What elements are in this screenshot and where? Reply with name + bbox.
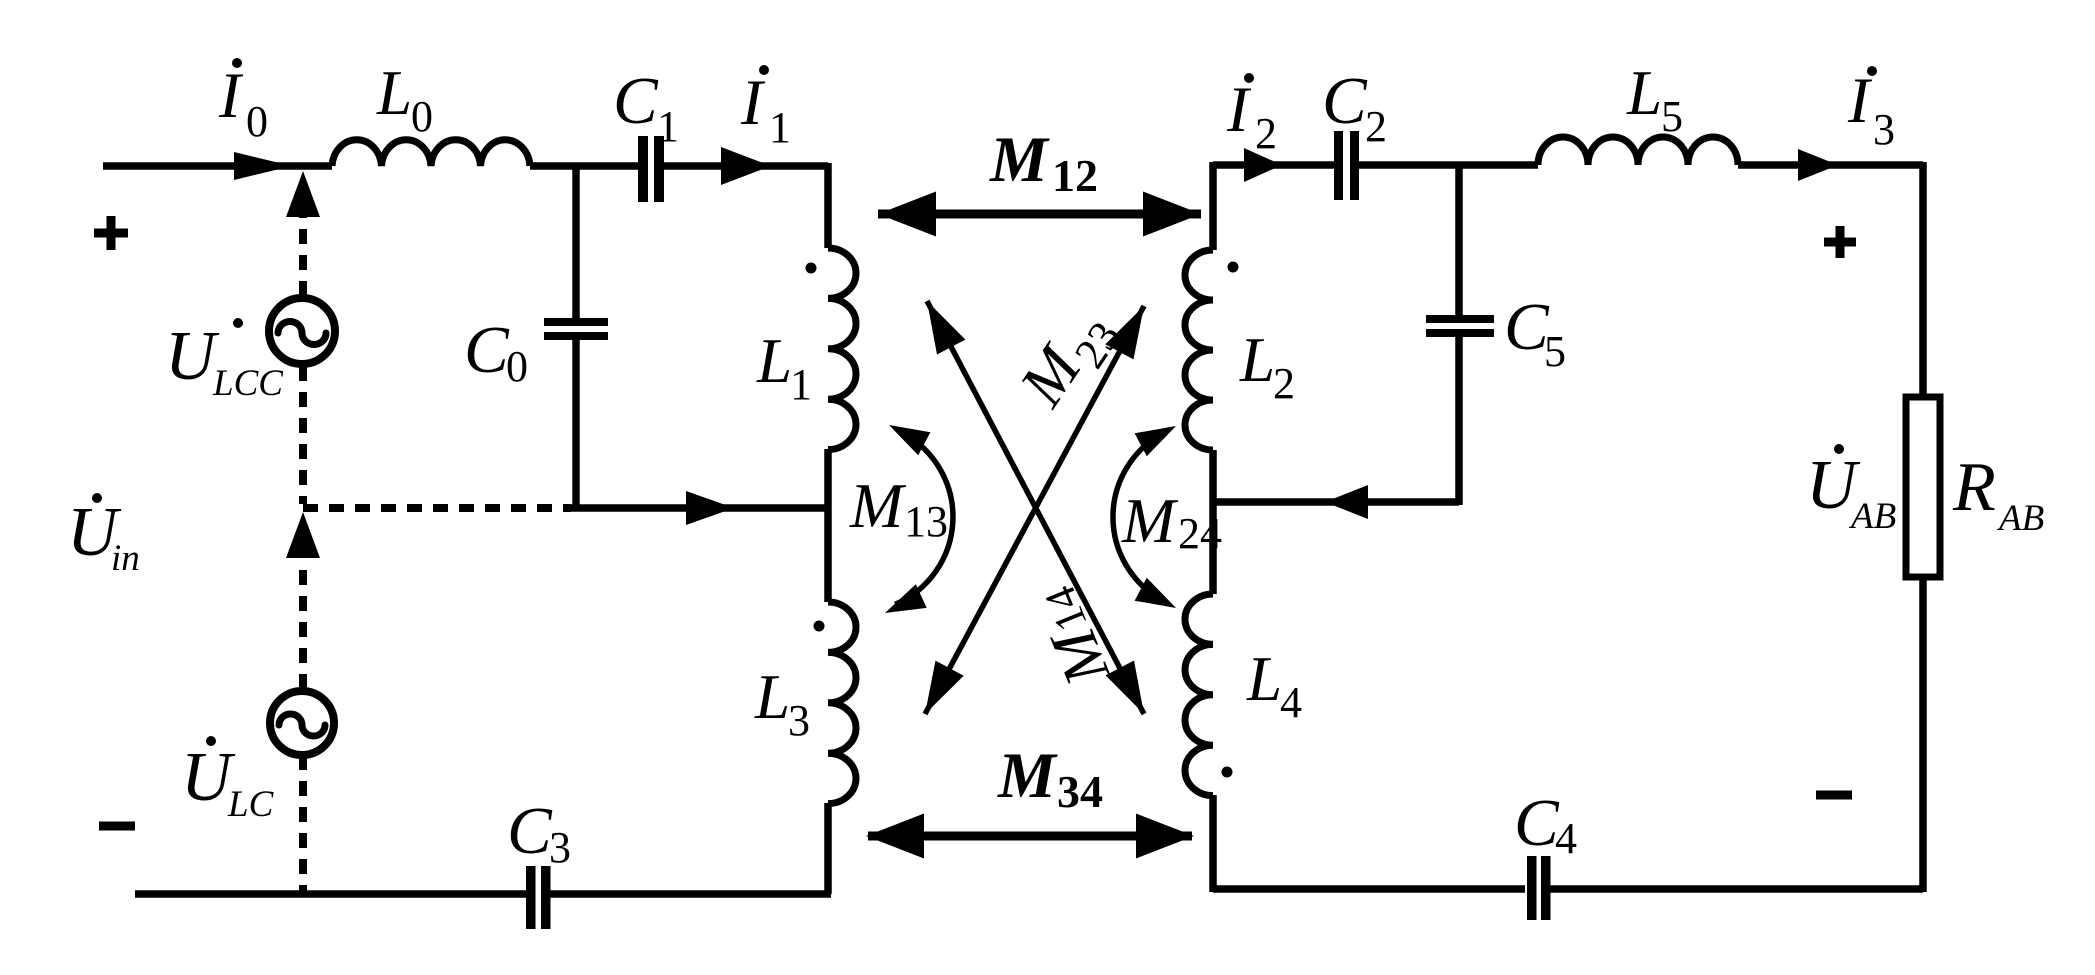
wire L2 to L4 spine xyxy=(1209,450,1217,594)
label I3 xyxy=(1847,65,1895,154)
label ULCC xyxy=(165,318,284,404)
wire L3 to bottom xyxy=(824,803,832,894)
svg-text:M: M xyxy=(1121,485,1179,556)
label I0 xyxy=(218,58,268,146)
svg-text:L: L xyxy=(756,326,792,396)
wire link to L1 L3 junction xyxy=(571,504,828,512)
label C1 xyxy=(613,64,679,151)
label C0 xyxy=(464,313,528,391)
svg-text:AB: AB xyxy=(1848,496,1896,537)
dashed horizontal link xyxy=(303,504,571,512)
svg-text:34: 34 xyxy=(1057,766,1103,817)
capacitor C5 xyxy=(1426,315,1494,337)
wire L4 to bottom xyxy=(1209,795,1217,892)
inductor L1 xyxy=(828,248,856,450)
label M34 xyxy=(997,740,1103,817)
wire C5 top branch xyxy=(1455,165,1463,317)
source ULCC xyxy=(269,298,335,364)
svg-text:L: L xyxy=(754,662,790,732)
inductor L5 xyxy=(1538,137,1738,165)
label L2 xyxy=(1239,325,1295,408)
wire C5 bottom branch xyxy=(1455,337,1463,505)
svg-text:M: M xyxy=(849,470,907,541)
wire top right C2 section xyxy=(1213,161,1336,169)
capacitor C3 xyxy=(526,866,551,929)
label M24 xyxy=(1121,485,1222,558)
svg-text:4: 4 xyxy=(1280,678,1302,727)
coupling arrow M34 xyxy=(866,814,1194,859)
dashed voltage line lower segment xyxy=(299,559,307,689)
dashed voltage line ULCC arrowhead xyxy=(286,171,320,217)
capacitor C0 xyxy=(544,318,608,340)
label L3 xyxy=(754,662,810,745)
capacitor C4 xyxy=(1527,856,1551,920)
svg-text:L: L xyxy=(376,58,412,128)
label L5 xyxy=(1626,58,1683,141)
wire C1 to corner xyxy=(664,162,828,170)
wire input feed xyxy=(103,162,332,170)
svg-text:4: 4 xyxy=(1555,814,1577,863)
svg-text:C: C xyxy=(1514,786,1560,860)
label L0 xyxy=(376,58,433,141)
coupling arrow M23 xyxy=(925,306,1144,714)
svg-text:M: M xyxy=(997,740,1058,812)
minus sign left xyxy=(99,822,135,831)
inductor L3 xyxy=(828,602,856,804)
coupling arrow M14 xyxy=(927,301,1144,714)
label I2 xyxy=(1226,73,1277,158)
svg-text:L: L xyxy=(1246,644,1282,714)
plus sign left xyxy=(94,216,128,250)
label M13 xyxy=(849,470,948,546)
svg-text:I: I xyxy=(740,67,766,139)
resistor RAB xyxy=(1906,397,1940,577)
label L4 xyxy=(1246,644,1302,727)
svg-text:L: L xyxy=(1626,58,1662,128)
wire C4 to RAB corner xyxy=(1547,885,1923,893)
svg-text:2: 2 xyxy=(1365,102,1387,151)
svg-text:3: 3 xyxy=(549,823,571,872)
dashed voltage line bottom segment xyxy=(299,755,307,892)
svg-text:0: 0 xyxy=(246,97,268,146)
current arrow I3 xyxy=(1798,149,1838,181)
label UAB xyxy=(1806,444,1896,537)
svg-text:in: in xyxy=(111,538,140,579)
label ULC xyxy=(181,736,275,825)
polarity dot L2 xyxy=(1228,262,1239,273)
label C2 xyxy=(1322,64,1387,151)
svg-text:C: C xyxy=(507,794,553,868)
svg-text:0: 0 xyxy=(506,342,528,391)
inductor L0 xyxy=(332,140,530,166)
svg-text:1: 1 xyxy=(790,360,812,409)
current arrow on link xyxy=(686,491,734,525)
capacitor C2 xyxy=(1334,131,1359,200)
coupling arc M13 xyxy=(885,425,953,613)
svg-text:C: C xyxy=(464,313,510,387)
svg-text:LCC: LCC xyxy=(212,363,284,404)
svg-text:1: 1 xyxy=(769,103,791,152)
wire C3 to L3 corner xyxy=(549,890,831,898)
svg-text:U: U xyxy=(165,318,220,395)
label M14 xyxy=(1020,577,1123,696)
coupling arc M24 xyxy=(1113,426,1176,608)
current arrow I0 xyxy=(234,152,292,180)
svg-text:LC: LC xyxy=(227,784,275,825)
dashed voltage line mid segment xyxy=(299,366,307,504)
source ULC xyxy=(270,691,334,755)
svg-text:5: 5 xyxy=(1544,327,1566,376)
svg-text:0: 0 xyxy=(411,92,433,141)
svg-text:1: 1 xyxy=(657,102,679,151)
dashed voltage line upper segment xyxy=(299,217,307,296)
polarity dot L3 xyxy=(814,621,825,632)
polarity dot L4 xyxy=(1222,767,1233,778)
inductor L4 xyxy=(1185,594,1213,796)
svg-text:I: I xyxy=(1226,74,1252,146)
wire corner to L2 xyxy=(1209,162,1217,250)
wire C5 link to L2 L4 junction xyxy=(1213,498,1459,506)
svg-text:12: 12 xyxy=(1052,150,1098,201)
svg-text:3: 3 xyxy=(1873,105,1895,154)
wire C0 bottom branch xyxy=(572,340,580,511)
wire RAB to bottom xyxy=(1919,577,1927,892)
wire C0 top branch xyxy=(572,166,580,320)
wire C2 to junction xyxy=(1359,161,1538,169)
plus sign right xyxy=(1824,226,1856,258)
svg-text:I: I xyxy=(218,60,244,132)
wire bottom left to C3 xyxy=(135,890,527,898)
inductor L2 xyxy=(1185,250,1213,450)
label I1 xyxy=(740,65,791,152)
wire corner down to RAB xyxy=(1919,162,1927,399)
svg-text:AB: AB xyxy=(1996,498,2044,539)
label L1 xyxy=(756,326,812,409)
svg-text:3: 3 xyxy=(788,696,810,745)
current arrow on C5 link xyxy=(1325,485,1368,519)
label C4 xyxy=(1514,786,1577,863)
dashed voltage line ULC arrowhead xyxy=(286,512,320,558)
wire corner down to L1 xyxy=(824,163,832,248)
svg-text:2: 2 xyxy=(1255,109,1277,158)
svg-text:C: C xyxy=(1322,64,1368,138)
current arrow I1 xyxy=(721,147,771,185)
coupling arrow M12 xyxy=(878,192,1201,237)
wire L0 to C1 xyxy=(530,162,640,170)
svg-text:M: M xyxy=(989,124,1050,196)
label RAB xyxy=(1952,449,2044,539)
minus sign right xyxy=(1816,791,1852,800)
svg-text:L: L xyxy=(1239,325,1275,395)
wire bottom right to C4 xyxy=(1213,885,1525,893)
svg-text:5: 5 xyxy=(1661,92,1683,141)
label Uin xyxy=(67,493,140,579)
polarity dot L1 xyxy=(806,263,817,274)
wire L1 to L3 spine xyxy=(824,449,832,602)
svg-text:R: R xyxy=(1952,449,1996,526)
wire L5 to corner xyxy=(1738,161,1923,169)
svg-text:2: 2 xyxy=(1273,359,1295,408)
label M12 xyxy=(989,124,1098,201)
current arrow I2 xyxy=(1244,148,1282,182)
capacitor C1 xyxy=(638,136,664,202)
label M23 xyxy=(1005,294,1130,424)
svg-text:C: C xyxy=(613,64,659,138)
svg-text:13: 13 xyxy=(904,497,948,546)
label C3 xyxy=(507,794,571,872)
label C5 xyxy=(1504,290,1566,376)
svg-text:I: I xyxy=(1847,65,1873,137)
